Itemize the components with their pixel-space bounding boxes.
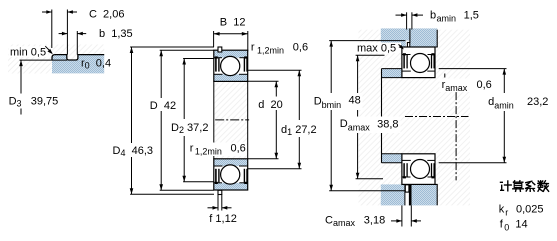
svg-text:C: C <box>325 215 333 227</box>
svg-text:b 1,35: b 1,35 <box>99 28 133 40</box>
svg-text:0,6: 0,6 <box>293 41 308 53</box>
svg-text:amin: amin <box>437 14 457 24</box>
svg-text:r: r <box>190 143 194 155</box>
svg-text:D: D <box>314 96 322 108</box>
svg-text:0: 0 <box>504 223 509 233</box>
svg-text:D4 46,3: D4 46,3 <box>113 145 154 158</box>
svg-text:f: f <box>500 219 504 231</box>
svg-text:f 1,12: f 1,12 <box>209 213 237 225</box>
svg-text:min 0,5: min 0,5 <box>10 47 46 59</box>
svg-text:1,2min: 1,2min <box>257 45 284 55</box>
svg-text:d: d <box>488 96 494 108</box>
svg-text:amax: amax <box>445 83 468 93</box>
svg-text:D: D <box>340 118 348 130</box>
svg-text:amin: amin <box>494 100 514 110</box>
svg-text:bmin: bmin <box>322 100 342 110</box>
svg-text:k: k <box>499 204 505 216</box>
svg-text:38,8: 38,8 <box>377 119 398 131</box>
svg-text:C 2,06: C 2,06 <box>89 9 124 21</box>
svg-text:d 20: d 20 <box>258 99 282 111</box>
svg-text:1,5: 1,5 <box>464 10 479 22</box>
svg-text:B 12: B 12 <box>220 17 246 29</box>
svg-text:r: r <box>505 208 508 218</box>
svg-text:max 0,5: max 0,5 <box>357 42 396 54</box>
svg-text:d1 27,2: d1 27,2 <box>281 124 317 137</box>
svg-text:14: 14 <box>515 219 527 231</box>
svg-text:23,2: 23,2 <box>527 96 548 108</box>
svg-text:amax: amax <box>348 123 371 133</box>
svg-text:D3 39,75: D3 39,75 <box>9 96 59 109</box>
svg-text:0,6: 0,6 <box>231 143 246 155</box>
svg-text:r: r <box>251 41 255 53</box>
svg-text:D 42: D 42 <box>150 100 176 112</box>
svg-text:48: 48 <box>349 95 361 107</box>
svg-text:3,18: 3,18 <box>364 215 385 227</box>
svg-text:amax: amax <box>333 218 356 228</box>
svg-text:1,2min: 1,2min <box>195 147 222 157</box>
svg-text:0,025: 0,025 <box>516 204 544 216</box>
svg-text:D2 37,2: D2 37,2 <box>171 122 208 135</box>
svg-text:b: b <box>430 10 436 22</box>
svg-text:0,6: 0,6 <box>477 79 492 91</box>
